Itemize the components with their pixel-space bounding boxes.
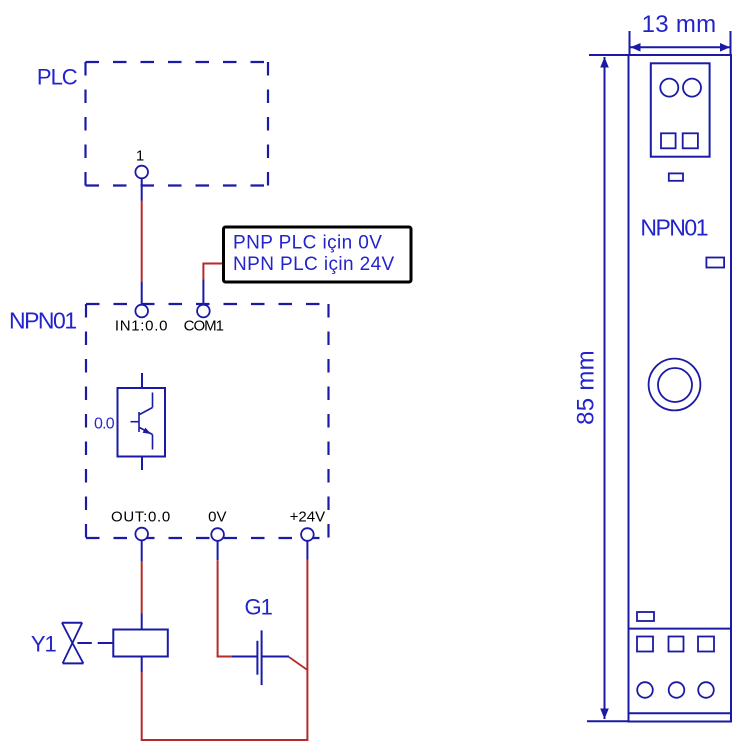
dimension 85 mm	[573, 55, 630, 721]
connector hole right	[683, 79, 701, 97]
module outline	[629, 55, 732, 722]
valve Y1	[62, 623, 84, 664]
wire OUT to solenoid	[141, 540, 143, 629]
svg-text:OUT:0.0: OUT:0.0	[111, 508, 171, 525]
bottom slot 3	[698, 637, 714, 652]
wire +24V down	[306, 541, 308, 740]
connector slot left	[661, 133, 676, 148]
label OUT:0.0	[111, 508, 171, 525]
wire solenoid to bottom	[141, 657, 143, 741]
svg-text:NPN PLC için 24V: NPN PLC için 24V	[233, 254, 395, 275]
transistor Q0.0	[118, 373, 166, 470]
wire COM1 to annotation	[203, 263, 223, 306]
svg-text:G1: G1	[245, 595, 273, 620]
svg-text:13 mm: 13 mm	[642, 11, 717, 38]
terminal 1	[135, 166, 148, 179]
connector hole left	[660, 79, 678, 97]
svg-text:NPN01: NPN01	[9, 308, 76, 334]
svg-text:IN1:0.0: IN1:0.0	[115, 318, 168, 335]
wire 1 to IN1:0.0	[141, 178, 143, 305]
solenoid coil Y1	[113, 630, 168, 657]
top latch	[669, 173, 683, 180]
terminal +24V	[301, 528, 314, 541]
knob inner	[658, 368, 692, 402]
label Y1	[31, 631, 57, 656]
label G1	[245, 595, 273, 620]
terminal COM1	[197, 305, 210, 318]
connector slot right	[683, 133, 698, 148]
label +24V	[290, 508, 325, 525]
terminal 0V	[211, 528, 224, 541]
label COM1	[184, 318, 224, 335]
label IN1:0.0	[115, 318, 168, 335]
svg-text:COM1: COM1	[184, 318, 224, 335]
module top connector	[651, 63, 710, 156]
bottom hole 3	[698, 682, 714, 698]
wire 0V to battery	[217, 541, 257, 657]
battery G1	[257, 630, 289, 685]
knob outer	[649, 359, 701, 411]
wire battery to +24V line	[289, 657, 307, 670]
NPN01 label	[9, 308, 76, 334]
terminal OUT:0.0	[135, 528, 148, 541]
svg-text:PLC: PLC	[37, 65, 78, 90]
bottom hole 1	[637, 682, 653, 698]
svg-text:NPN01: NPN01	[640, 215, 707, 241]
value 0.0	[94, 416, 115, 433]
label 0V	[208, 508, 226, 525]
bottom section divider	[629, 628, 732, 630]
bottom latch	[637, 612, 654, 621]
svg-text:0.0: 0.0	[94, 416, 115, 433]
bottom hole 2	[669, 682, 685, 698]
module label NPN01	[640, 215, 707, 241]
svg-text:Y1: Y1	[31, 631, 57, 656]
annotation box PNP/NPN	[224, 227, 412, 282]
bottom slot 2	[669, 637, 684, 652]
wire bottom return	[141, 739, 309, 741]
bottom strip line	[629, 712, 732, 714]
pin 1 label	[136, 148, 144, 165]
NPN01 box	[86, 304, 329, 538]
PLC label	[37, 65, 78, 90]
terminal IN1:0.0	[135, 305, 148, 318]
PLC box	[86, 62, 269, 186]
bottom slot 1	[637, 637, 653, 652]
link valve to coil	[77, 642, 113, 644]
side latch	[706, 258, 724, 268]
svg-text:1: 1	[136, 148, 144, 165]
svg-text:+24V: +24V	[290, 508, 325, 525]
svg-text:PNP PLC için 0V: PNP PLC için 0V	[233, 233, 382, 254]
dimension 13 mm	[630, 11, 731, 55]
svg-text:85 mm: 85 mm	[573, 350, 600, 425]
svg-text:0V: 0V	[208, 508, 226, 525]
